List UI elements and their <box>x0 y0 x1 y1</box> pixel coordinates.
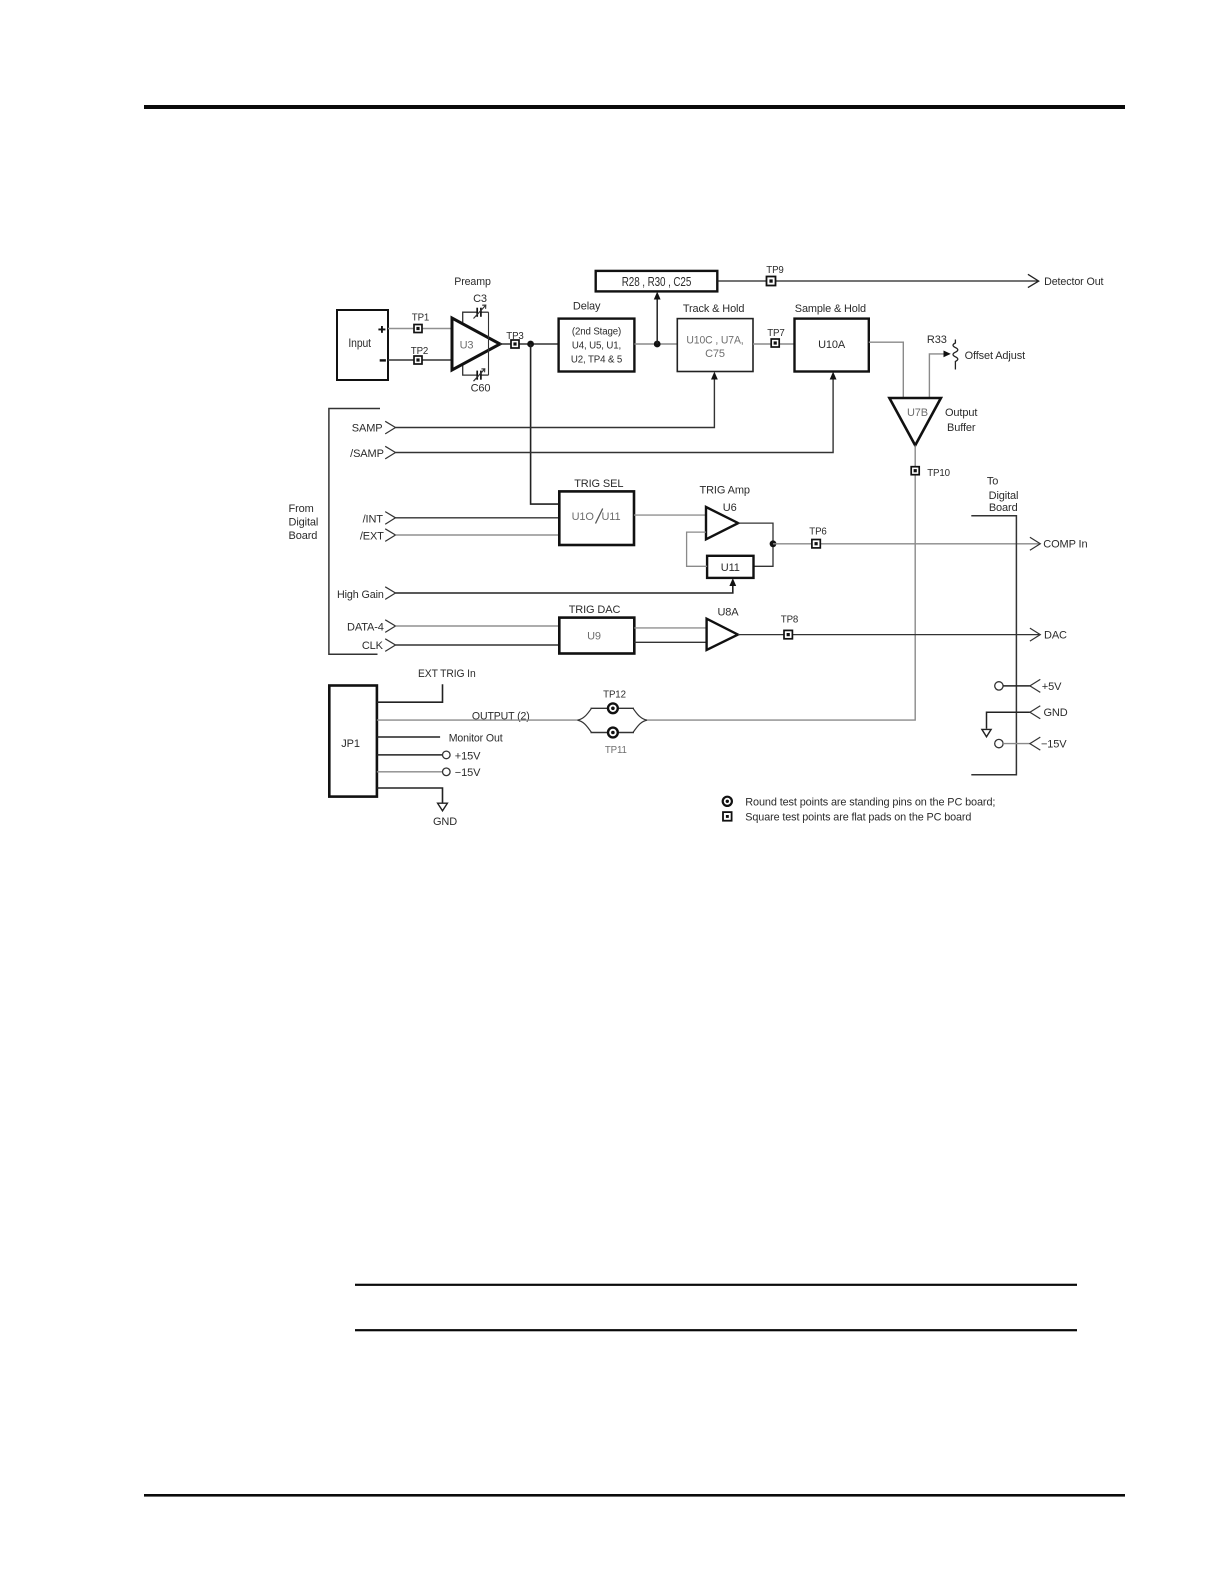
svg-text:U10C , U7A,: U10C , U7A, <box>686 334 743 346</box>
svg-text:U4, U5, U1,: U4, U5, U1, <box>572 340 621 351</box>
wire U11 feedback to U6 input <box>687 532 708 566</box>
test point TP11 round <box>608 728 618 738</box>
arrow DAC <box>1030 628 1067 641</box>
arrow -15V chevron <box>1030 737 1067 750</box>
svg-text:Buffer: Buffer <box>947 422 976 434</box>
svg-text:U9: U9 <box>587 631 601 643</box>
net High Gain input chevron <box>337 587 396 601</box>
svg-text:From: From <box>289 503 314 515</box>
block Track and Hold U10C U7A C75 <box>677 319 753 372</box>
wire JP1 to ground <box>377 788 443 803</box>
wire fork upper branch <box>591 707 635 709</box>
svg-text:U8A: U8A <box>717 607 739 619</box>
svg-text:EXT TRIG In: EXT TRIG In <box>418 668 476 680</box>
label To Digital Board <box>987 475 1018 514</box>
net /EXT input chevron <box>360 529 396 543</box>
arrow GND chevron <box>1030 706 1068 719</box>
svg-text:R28 , R30 , C25: R28 , R30 , C25 <box>622 275 692 289</box>
test point TP6 <box>809 526 826 548</box>
svg-text:Input: Input <box>348 338 371 350</box>
arrow +5V chevron <box>1030 679 1062 692</box>
connector JP1 <box>329 686 377 797</box>
bracket To Digital Board <box>971 516 1016 775</box>
svg-text:U2, TP4 & 5: U2, TP4 & 5 <box>571 355 622 366</box>
test point TP2 <box>411 346 428 364</box>
svg-text:(2nd Stage): (2nd Stage) <box>572 327 621 338</box>
svg-text:TP7: TP7 <box>767 328 784 339</box>
svg-text:C60: C60 <box>471 383 491 395</box>
svg-text:/EXT: /EXT <box>360 531 384 543</box>
svg-text:+15V: +15V <box>455 750 481 762</box>
net /SAMP input chevron <box>350 446 395 460</box>
wire Monitor Out stub <box>377 736 440 738</box>
op-amp U3 preamp <box>452 312 500 375</box>
svg-text:SAMP: SAMP <box>352 423 383 435</box>
wire DATA-4 to TRIG DAC <box>396 625 560 627</box>
net SAMP input chevron <box>352 421 396 434</box>
capacitor C60 feedback loop <box>463 364 491 395</box>
svg-text:Detector Out: Detector Out <box>1044 276 1103 288</box>
svg-text:GND: GND <box>1044 707 1068 719</box>
wire SAMP to Track & Hold with arrowhead <box>396 372 718 428</box>
svg-text:U6: U6 <box>723 502 737 514</box>
ground symbol right side <box>982 729 991 736</box>
wire /INT to TRIG SEL <box>396 517 560 519</box>
svg-text:Digital: Digital <box>989 490 1019 502</box>
svg-text:Delay: Delay <box>573 301 601 313</box>
wire High Gain to U11 with arrowhead <box>396 578 737 593</box>
capacitor C3 feedback loop <box>463 293 489 324</box>
svg-text:TP11: TP11 <box>605 745 627 756</box>
block Delay (2nd Stage) <box>559 319 635 372</box>
svg-text:DATA-4: DATA-4 <box>347 622 384 634</box>
test point TP12 round <box>608 703 618 713</box>
wire U6 output down to U11 <box>738 523 773 566</box>
wire node up to R28 box with arrowhead <box>654 292 661 344</box>
wire TRIG DAC to U8A lower <box>634 641 706 643</box>
svg-text:TP10: TP10 <box>927 468 950 479</box>
block R28, R30, C25 <box>596 271 718 292</box>
arrow Detector Out <box>1028 274 1104 288</box>
svg-text:−15V: −15V <box>1041 739 1067 751</box>
svg-text:TRIG SEL: TRIG SEL <box>574 478 623 490</box>
svg-text:GND: GND <box>433 816 457 828</box>
svg-text:COMP In: COMP In <box>1043 539 1087 551</box>
net /INT input chevron <box>363 512 396 526</box>
wire TRIG DAC to U8A upper <box>634 627 706 629</box>
footer rule <box>144 1494 1125 1497</box>
test point TP10 <box>911 467 950 480</box>
svg-text:Round test points are standing: Round test points are standing pins on t… <box>745 796 995 808</box>
resistor R33 offset adjust <box>927 334 1025 370</box>
block Sample and Hold U10A <box>795 319 869 372</box>
svg-text:High Gain: High Gain <box>337 589 384 601</box>
wire U7B second input from R33 <box>929 354 945 398</box>
test point TP1 <box>412 313 429 333</box>
wire U8A to DAC <box>738 634 1039 636</box>
legend square test point symbol <box>723 812 732 821</box>
block TRIG SEL U10/U11 <box>559 491 634 545</box>
svg-text:Monitor Out: Monitor Out <box>449 733 503 745</box>
svg-text:R33: R33 <box>927 334 947 346</box>
test point TP9 <box>766 265 783 286</box>
svg-text:U10A: U10A <box>818 339 846 351</box>
svg-text:Digital: Digital <box>289 517 319 529</box>
svg-text:Offset Adjust: Offset Adjust <box>965 350 1025 362</box>
svg-text:TP8: TP8 <box>781 615 798 626</box>
net CLK input chevron <box>362 639 396 652</box>
svg-text:CLK: CLK <box>362 640 384 652</box>
svg-text:Sample & Hold: Sample & Hold <box>795 303 866 315</box>
note rule upper <box>355 1284 1077 1286</box>
wire JP1 OUTPUT (2) <box>377 719 577 721</box>
wire /EXT to TRIG SEL <box>396 534 560 536</box>
legend round test point symbol <box>723 797 732 806</box>
wire Sample out to U7B <box>869 342 904 398</box>
op-amp U6 trig amp <box>706 502 738 540</box>
svg-text:Preamp: Preamp <box>454 276 491 288</box>
note rule lower <box>355 1329 1077 1331</box>
terminal circle +5V <box>995 682 1003 690</box>
wire GND to ground symbol <box>987 712 1031 729</box>
wire TRIG SEL to U6 <box>634 514 706 516</box>
svg-text:To: To <box>987 475 998 487</box>
svg-text:U11: U11 <box>721 562 740 574</box>
wire TP3 node down to TRIG SEL <box>531 344 560 504</box>
terminal circle +15V <box>443 751 451 759</box>
wire -15V right <box>1003 743 1030 745</box>
wire output fork right <box>633 708 647 732</box>
wire output fork left <box>577 708 591 732</box>
node junction TP6 branch <box>770 540 777 547</box>
wire R28 box to Detector Out <box>717 280 1038 282</box>
terminal circle -15V right <box>995 739 1003 747</box>
arrowhead into R33 <box>944 351 951 358</box>
node junction to R28 branch <box>654 341 661 348</box>
wire fork lower branch <box>591 732 635 734</box>
svg-text:C3: C3 <box>473 293 487 305</box>
net DATA-4 input chevron <box>347 620 395 634</box>
arrow COMP In <box>1030 537 1088 550</box>
wire CLK to TRIG DAC <box>396 644 560 646</box>
wire junction to COMP In <box>773 543 1039 545</box>
svg-text:Track & Hold: Track & Hold <box>683 303 745 315</box>
op-amp U7B output buffer <box>889 398 977 445</box>
svg-text:/SAMP: /SAMP <box>350 448 384 460</box>
op-amp U8A <box>707 619 738 650</box>
svg-text:−15V: −15V <box>455 767 481 779</box>
wire JP1 EXT TRIG In <box>377 684 443 702</box>
svg-text:JP1: JP1 <box>341 738 360 750</box>
wire +5V <box>1003 685 1030 687</box>
wire +15V stub <box>377 754 443 756</box>
svg-text:U11: U11 <box>601 511 620 523</box>
wire Delay to Track & Hold <box>634 343 677 345</box>
svg-text:DAC: DAC <box>1044 630 1067 642</box>
svg-text:/INT: /INT <box>363 514 384 526</box>
terminal circle -15V <box>443 768 451 776</box>
svg-text:TP9: TP9 <box>766 265 783 276</box>
svg-text:TRIG DAC: TRIG DAC <box>569 604 621 616</box>
svg-text:TP1: TP1 <box>412 313 429 324</box>
header rule <box>144 105 1125 109</box>
bracket From Digital Board <box>289 409 381 655</box>
svg-text:Board: Board <box>289 530 318 542</box>
ground symbol at JP1 <box>438 803 448 811</box>
svg-text:U3: U3 <box>460 339 474 351</box>
wire Track to Sample box <box>753 343 795 345</box>
svg-text:Board: Board <box>989 502 1018 514</box>
test point TP7 <box>767 328 784 347</box>
svg-text:+5V: +5V <box>1042 681 1062 693</box>
test point TP3 <box>506 331 523 348</box>
svg-text:TRIG Amp: TRIG Amp <box>700 485 750 497</box>
wire U3 output to Delay <box>500 343 559 345</box>
block TRIG DAC U9 <box>559 618 634 654</box>
svg-text:C75: C75 <box>705 348 725 360</box>
svg-text:TP6: TP6 <box>809 526 826 537</box>
svg-text:Output: Output <box>945 407 977 419</box>
wire input- to U3 <box>388 359 452 361</box>
svg-text:Square test points are flat pa: Square test points are flat pads on the … <box>745 812 971 824</box>
wire U7B down through TP10 to output line <box>647 445 915 720</box>
svg-text:U1O: U1O <box>572 511 595 523</box>
test point TP8 <box>781 615 798 639</box>
block U11 feedback <box>707 556 753 578</box>
svg-text:TP12: TP12 <box>603 689 626 700</box>
input connector box Input <box>337 310 388 380</box>
wire /SAMP to Sample & Hold with arrowhead <box>396 372 837 453</box>
wire -15V stub <box>377 771 443 773</box>
node junction at TP3 branch <box>527 341 534 348</box>
svg-text:U7B: U7B <box>907 407 928 419</box>
wire input+ to U3 <box>388 328 452 330</box>
